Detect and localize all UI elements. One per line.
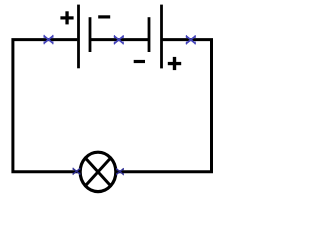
junction marker (blue x) on top-right wire xyxy=(186,36,195,45)
battery B2 positive plate (long) xyxy=(160,5,163,69)
junction marker (blue x) at lamp right xyxy=(116,168,123,175)
wire: top-left segment, left side, bottom-left segment xyxy=(13,40,80,172)
junction marker (blue x) between cells xyxy=(114,36,123,45)
battery B1 positive plate (long) xyxy=(77,5,80,69)
lamp L1 cross xyxy=(85,158,110,186)
wire: top-right segment, right side, bottom-right segment xyxy=(117,40,211,172)
junction marker (blue x) at lamp left xyxy=(73,168,80,175)
wire: segment between cells xyxy=(90,38,149,41)
junction marker (blue x) on top-left wire xyxy=(44,35,53,44)
battery B2 negative plate (short) xyxy=(148,17,151,52)
battery B1 negative plate (short) xyxy=(89,17,92,52)
lamp L1 bulb outline xyxy=(80,152,116,191)
label: - (battery B2) xyxy=(134,60,145,63)
label: - (battery B1) xyxy=(98,15,110,18)
label: + (battery B1) xyxy=(60,11,73,24)
label: + (battery B2) xyxy=(168,57,181,70)
